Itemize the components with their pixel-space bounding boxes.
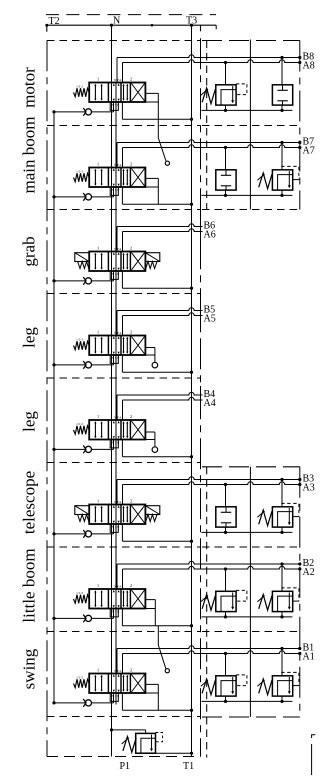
wire check-line riser below V3 <box>113 524 115 534</box>
svg-text:1 0 2: 1 0 2 <box>76 422 83 426</box>
svg-text:1: 1 <box>97 414 99 419</box>
wire valve-to-A3 vertical <box>122 485 124 505</box>
wire A7 work line <box>123 145 300 148</box>
svg-text:T1: T1 <box>183 761 194 772</box>
svg-text:N P A: N P A <box>114 415 122 419</box>
main relief valve inlet line <box>112 729 146 731</box>
svg-text:1: 1 <box>97 162 99 167</box>
svg-text:N P A: N P A <box>114 500 122 504</box>
junction dots on B3/A3 lines <box>280 478 283 481</box>
svg-text:N P A: N P A <box>114 247 122 251</box>
port relief valve on A2 <box>201 590 247 611</box>
svg-text:1 0 2: 1 0 2 <box>76 338 83 342</box>
svg-text:N P A: N P A <box>114 78 122 82</box>
svg-text:A1: A1 <box>303 652 315 663</box>
section separator dashed line above telescope <box>47 462 201 464</box>
return spring of V5 <box>74 338 90 350</box>
main relief valve <box>122 733 163 754</box>
assembly middle tank vertical (lower group) <box>249 467 251 717</box>
carryover line to next section <box>115 609 117 674</box>
wire B3 work line <box>117 477 300 480</box>
wire symbol drain line (section motor) <box>202 109 293 111</box>
svg-text:A3: A3 <box>303 483 315 494</box>
return spring of V8 <box>74 85 90 97</box>
svg-text:swing: swing <box>20 648 39 689</box>
section separator dashed line above grab <box>47 209 201 211</box>
wire valve-to-B6 vertical <box>116 227 118 252</box>
assembly separator dashed line (little boom) <box>202 546 300 548</box>
solid border segment behind port labels <box>200 386 202 411</box>
wire A1 work line <box>123 651 300 654</box>
anti-cavitation valve on A7 <box>216 170 236 190</box>
wire valve-to-A8 vertical <box>122 63 124 83</box>
directional control valve V3 (telescope) <box>89 499 145 530</box>
lever bracket and roller (leg) <box>145 348 155 363</box>
roller circle <box>152 447 158 453</box>
outer dash-dot border of valve block (left) <box>46 40 48 756</box>
lever bracket and roller (leg) <box>145 432 155 447</box>
wire valve-to-B7 vertical <box>116 143 118 168</box>
wire check-line riser below V2 <box>113 609 115 619</box>
port relief valve on B7 <box>257 166 299 190</box>
wire tank loop below V8 <box>110 102 118 110</box>
wire A7 to left symbol <box>225 148 227 170</box>
wire valve-to-A6 vertical <box>122 232 124 252</box>
directional control valve V5 (leg) <box>89 330 145 361</box>
wire load-check line (section swing) <box>54 702 114 704</box>
wire check-line riser below V5 <box>113 355 115 365</box>
wire B3 to right symbol <box>281 480 283 507</box>
directional control valve V2 (little boom) <box>89 583 145 614</box>
wire valve-to-B3 vertical <box>116 480 118 505</box>
return spring of V4 <box>74 422 90 434</box>
carryover line to next section <box>115 440 117 505</box>
section separator dashed line above motor <box>47 40 201 42</box>
wire load-check line (section grab) <box>54 280 114 282</box>
outer dashed border top <box>46 14 216 16</box>
wire valve-to-A2 vertical <box>122 569 124 589</box>
wire tank loop below V6 <box>110 271 118 279</box>
wire valve-to-A5 vertical <box>122 316 124 336</box>
svg-text:T2: T2 <box>49 16 60 27</box>
wire check-line riser below V6 <box>113 271 115 281</box>
solenoid a of V3 <box>75 506 89 522</box>
junction dots on B7/A7 lines <box>280 141 283 144</box>
load check valve (section swing) <box>83 699 91 707</box>
left gallery vertical joining load-check lines <box>53 112 55 703</box>
assembly dashed left border extension below swing <box>206 717 208 758</box>
wire A3 to left symbol <box>225 485 227 507</box>
svg-text:leg: leg <box>20 327 39 348</box>
svg-text:A2: A2 <box>303 567 315 578</box>
wire A2 to left symbol <box>225 569 227 591</box>
load check valve (section leg) <box>83 446 91 454</box>
assembly middle tank vertical (upper group) <box>249 40 251 210</box>
carryover line to next section <box>115 524 117 589</box>
directional control valve V6 (grab) <box>89 246 145 277</box>
wire symbol drain line (section main boom) <box>202 194 293 196</box>
svg-text:2: 2 <box>130 499 132 504</box>
wire A3 work line <box>123 482 300 485</box>
svg-text:2: 2 <box>130 414 132 419</box>
lever linkage with ball (swing) <box>157 626 159 645</box>
svg-text:2: 2 <box>130 246 132 251</box>
wire B6 work line <box>117 224 203 227</box>
solid border segment behind port labels <box>200 218 202 243</box>
wire return line to tank (section main boom) <box>121 187 123 204</box>
svg-text:1 0 2: 1 0 2 <box>76 170 83 174</box>
anti-cavitation valve on B8 <box>272 85 292 105</box>
wire return line to tank (section motor) <box>121 102 123 119</box>
wire symbol drain line (section little boom) <box>202 616 293 618</box>
load check valve (section grab) <box>83 277 91 285</box>
port relief valve on B3 <box>257 503 299 527</box>
wire valve-to-B2 vertical <box>116 564 118 589</box>
svg-text:P1: P1 <box>120 761 131 772</box>
wire B7 to right symbol <box>281 143 283 170</box>
svg-text:1: 1 <box>97 499 99 504</box>
svg-text:little boom: little boom <box>20 548 39 622</box>
svg-text:telescope: telescope <box>20 471 39 534</box>
section separator dashed line above swing <box>47 631 201 633</box>
port relief valve on B1 <box>257 672 299 696</box>
solenoid a of V6 <box>75 253 89 269</box>
load check valve (section telescope) <box>83 530 91 538</box>
carryover line to next section <box>115 102 117 168</box>
svg-text:T3: T3 <box>186 16 197 27</box>
directional control valve V8 (motor) <box>89 77 145 108</box>
load check valve (section leg) <box>83 361 91 369</box>
svg-text:1: 1 <box>97 77 99 82</box>
wire A6 work line <box>123 229 203 232</box>
wire tank loop below V2 <box>110 609 118 617</box>
wire valve-to-B4 vertical <box>116 395 118 420</box>
svg-text:A7: A7 <box>303 146 315 157</box>
svg-text:2: 2 <box>130 583 132 588</box>
svg-text:2: 2 <box>130 330 132 335</box>
wire load-check line (section motor) <box>54 111 114 113</box>
wire valve-to-B5 vertical <box>116 311 118 336</box>
wire B1 to right symbol <box>281 649 283 676</box>
wire check-line riser below V7 <box>113 187 115 197</box>
svg-text:A5: A5 <box>204 314 216 325</box>
wire B7 work line <box>117 140 300 143</box>
port relief valve on B2 <box>257 588 299 612</box>
wire return line to tank (section grab) <box>121 271 123 288</box>
bracket (little boom) <box>145 600 155 626</box>
wire B2 work line <box>117 561 300 564</box>
return spring of V2 <box>74 591 90 603</box>
directional control valve V4 (leg) <box>89 414 145 445</box>
carryover line to next section <box>115 271 117 336</box>
assembly separator dashed line (motor) <box>202 40 300 42</box>
svg-text:1: 1 <box>97 668 99 673</box>
carryover line to next section <box>115 693 117 705</box>
wire return line to tank (section little boom) <box>121 609 123 626</box>
junction dots on B8/A8 lines <box>280 56 283 59</box>
wire valve-to-A1 vertical <box>122 654 124 674</box>
solenoid b of V3 <box>145 506 159 522</box>
assembly separator dashed line below main boom group <box>202 209 300 211</box>
separator dashed line above inlet section <box>47 716 201 718</box>
assembly separator dashed line (main boom) <box>202 125 300 127</box>
wire tank loop below V7 <box>110 187 118 195</box>
wire check-line riser below V8 <box>113 102 115 112</box>
bracket (pilot passage) <box>145 93 158 119</box>
solenoid b of V6 <box>145 253 159 269</box>
load check valve (section main boom) <box>83 193 91 201</box>
svg-text:A8: A8 <box>303 61 315 72</box>
directional control valve V7 (main boom) <box>89 162 145 193</box>
wire A5 work line <box>123 313 203 316</box>
svg-text:1: 1 <box>97 583 99 588</box>
wire return line to tank (section swing) <box>121 693 123 710</box>
svg-text:1: 1 <box>97 330 99 335</box>
wire load-check line (section main boom) <box>54 196 114 198</box>
outer dash-dot border (right of main block) <box>200 25 202 31</box>
tank line T3-T1 <box>191 25 193 756</box>
wire B4 work line <box>117 392 203 395</box>
wire load-check line (section telescope) <box>54 533 114 535</box>
wire valve-to-B1 vertical <box>116 649 118 674</box>
wire check-line riser below V1 <box>113 693 115 703</box>
wire valve-to-B8 vertical <box>116 58 118 83</box>
wire A4 work line <box>123 397 203 400</box>
assembly separator dashed line (swing) <box>202 631 300 633</box>
wire load-check line (section leg) <box>54 364 114 366</box>
wire return line to tank (section leg) <box>121 355 123 372</box>
svg-text:N P A: N P A <box>114 584 122 588</box>
wire symbol drain line (section telescope) <box>202 531 293 533</box>
svg-text:A6: A6 <box>204 230 216 241</box>
wire valve-to-A7 vertical <box>122 148 124 168</box>
assembly separator dashed line (telescope) <box>202 466 300 468</box>
svg-text:2: 2 <box>130 77 132 82</box>
wire B8 work line <box>117 55 300 58</box>
svg-text:N P A: N P A <box>114 669 122 673</box>
wire tank loop below V5 <box>110 355 118 363</box>
svg-text:leg: leg <box>20 411 39 432</box>
bracket (pilot passage) <box>145 178 158 204</box>
svg-text:A4: A4 <box>204 398 216 409</box>
wire B5 work line <box>117 308 203 311</box>
return spring of V7 <box>74 170 90 182</box>
wire A8 to left symbol <box>225 63 227 85</box>
load check valve (section motor) <box>83 108 91 116</box>
svg-text:2: 2 <box>130 668 132 673</box>
svg-text:N P A: N P A <box>114 331 122 335</box>
assembly block dash-dot right border <box>299 41 301 210</box>
tank header line T2-N-T3 <box>47 24 217 26</box>
assembly bottom dashed line <box>202 716 300 718</box>
svg-text:1 0 2: 1 0 2 <box>76 591 83 595</box>
solid border segment behind port labels <box>200 302 202 327</box>
pressure feed line N-P1 <box>111 25 113 756</box>
svg-text:grab: grab <box>20 236 39 266</box>
wire A8 work line <box>123 60 300 63</box>
wire tank loop below V4 <box>110 440 118 448</box>
section separator dashed line above leg <box>47 377 201 379</box>
section separator dashed line above leg <box>47 293 201 295</box>
svg-text:N P A: N P A <box>114 163 122 167</box>
bracket (pilot passage) <box>145 684 158 710</box>
wire load-check line (section little boom) <box>54 617 114 619</box>
svg-text:1 0 2: 1 0 2 <box>76 85 83 89</box>
wire return line to tank (section telescope) <box>121 524 123 541</box>
wire check-line riser below V4 <box>113 440 115 450</box>
section separator dashed line above little boom <box>47 546 201 548</box>
port relief valve on A1 <box>201 675 247 696</box>
wire B1 work line <box>117 646 300 649</box>
svg-text:N: N <box>113 16 120 27</box>
wire symbol drain line (section swing) <box>202 700 293 702</box>
wire tank loop below V3 <box>110 524 118 532</box>
anti-cavitation valve on A3 <box>216 507 236 527</box>
wire return line to tank (section leg) <box>121 440 123 457</box>
junction dots on B1/A1 lines <box>280 647 283 650</box>
load check valve (section little boom) <box>83 615 91 623</box>
wire valve-to-A4 vertical <box>122 400 124 420</box>
junction dots on B2/A2 lines <box>280 562 283 565</box>
outer dashed border bottom <box>47 756 201 758</box>
main relief outlet line to T1 <box>146 752 192 754</box>
carryover line to next section <box>115 187 117 252</box>
wire B2 to right symbol <box>281 564 283 591</box>
adjacent block corner (bottom right) <box>312 735 319 775</box>
lever linkage with ball (main boom) <box>157 119 159 138</box>
section separator dashed line above main boom <box>47 125 201 127</box>
wire A1 to left symbol <box>225 654 227 676</box>
wire load-check line (section leg) <box>54 448 114 450</box>
return spring of V1 <box>74 676 90 688</box>
roller circle <box>152 362 158 368</box>
port relief valve on A8 <box>201 84 247 105</box>
svg-text:motor: motor <box>20 67 39 108</box>
svg-text:1 0 2: 1 0 2 <box>76 676 83 680</box>
svg-text:1: 1 <box>97 246 99 251</box>
svg-text:2: 2 <box>130 162 132 167</box>
wire A2 work line <box>123 566 300 569</box>
carryover line to next section <box>115 355 117 420</box>
wire tank loop below V1 <box>110 693 118 701</box>
directional control valve V1 (swing) <box>89 668 145 699</box>
svg-text:main boom: main boom <box>20 117 39 194</box>
wire B8 to right symbol <box>281 58 283 85</box>
assembly block dashed left border <box>206 41 208 210</box>
